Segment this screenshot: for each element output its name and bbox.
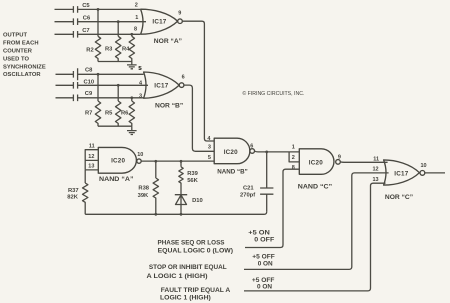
svg-text:+5 OFF: +5 OFF xyxy=(252,253,274,260)
note: FAULT TRIP EQUAL A LOGIC 1 (HIGH) xyxy=(160,287,230,301)
wire: bottom rail xyxy=(85,212,267,215)
svg-text:D10: D10 xyxy=(192,198,203,204)
svg-text:8: 8 xyxy=(292,165,295,171)
svg-text:SYNCHRONIZE: SYNCHRONIZE xyxy=(3,65,46,71)
resistor R3 xyxy=(105,36,121,61)
wire C7 tap to R4 xyxy=(131,34,133,36)
svg-text:13: 13 xyxy=(373,177,379,183)
capacitor C21 270pf xyxy=(240,152,273,212)
svg-text:9: 9 xyxy=(178,10,181,16)
wire: NAND A tied inputs 11,12,13 xyxy=(85,150,98,170)
node rail/R38 xyxy=(154,213,157,216)
svg-text:13: 13 xyxy=(88,164,94,170)
svg-text:R4: R4 xyxy=(122,46,130,52)
svg-text:© FIRING CIRCUITS, INC.: © FIRING CIRCUITS, INC. xyxy=(242,90,304,97)
svg-text:R38: R38 xyxy=(138,186,149,192)
svg-text:2: 2 xyxy=(292,155,295,161)
svg-text:R39: R39 xyxy=(187,171,198,177)
svg-text:C8: C8 xyxy=(85,68,93,74)
wire: NOR B output to NAND B pin 3 xyxy=(184,85,214,151)
resistor R39 56K xyxy=(179,161,199,194)
svg-text:R7: R7 xyxy=(85,110,92,116)
svg-text:IC17: IC17 xyxy=(154,82,168,89)
svg-text:R3: R3 xyxy=(105,46,113,52)
svg-text:IC20: IC20 xyxy=(309,159,323,166)
svg-text:R2: R2 xyxy=(86,47,93,53)
svg-text:C7: C7 xyxy=(82,28,89,34)
svg-text:R37: R37 xyxy=(68,188,79,194)
wire C6 tap to R3 xyxy=(117,22,119,37)
svg-text:OUTPUT: OUTPUT xyxy=(3,33,28,39)
capacitor C7 xyxy=(55,28,141,38)
node R39/D10 tap xyxy=(180,160,183,163)
svg-text:NAND “C”: NAND “C” xyxy=(298,183,332,190)
svg-text:8: 8 xyxy=(134,26,137,32)
svg-text:11: 11 xyxy=(89,143,95,149)
node C5/R2 xyxy=(97,8,100,11)
node C21 tap xyxy=(265,151,268,154)
node C6/R3 xyxy=(117,20,120,23)
svg-text:5: 5 xyxy=(139,66,142,72)
note: PHASE SEQ OR LOSS EQUAL LOGIC 0 (LOW) xyxy=(158,240,234,255)
svg-text:82K: 82K xyxy=(67,195,78,201)
svg-text:1: 1 xyxy=(292,144,295,150)
capacitor C5 xyxy=(55,3,141,13)
resistor R5 xyxy=(105,101,121,126)
svg-text:56K: 56K xyxy=(187,178,198,184)
svg-text:C9: C9 xyxy=(85,91,93,97)
NAND gate B: IC20 xyxy=(207,136,254,175)
wire: pin 12 from STOP rail xyxy=(244,173,389,270)
node C7/R4 xyxy=(130,33,133,36)
wire: NOR C output xyxy=(425,172,445,174)
wire C6 into gate xyxy=(145,21,148,23)
svg-text:EQUAL LOGIC 0 (LOW): EQUAL LOGIC 0 (LOW) xyxy=(158,248,233,255)
capacitor C9 xyxy=(56,91,144,101)
note: +5 ON / 0 OFF xyxy=(248,229,274,243)
NOR gate C: IC17 xyxy=(373,157,427,201)
wire: jumper pin1 to pin2 xyxy=(289,152,299,162)
svg-text:2: 2 xyxy=(135,3,138,9)
svg-text:6: 6 xyxy=(182,75,185,81)
svg-text:6: 6 xyxy=(250,143,253,149)
svg-text:IC17: IC17 xyxy=(394,171,408,178)
svg-text:OSCILLATOR: OSCILLATOR xyxy=(3,72,41,78)
svg-text:NAND “B”: NAND “B” xyxy=(217,169,248,176)
svg-text:12: 12 xyxy=(88,154,94,160)
node rail/D10 xyxy=(180,213,183,216)
NAND gate C: IC20 xyxy=(292,144,341,190)
wire: pin 13 from FAULT rail xyxy=(244,183,386,291)
svg-text:0 OFF: 0 OFF xyxy=(254,237,274,244)
svg-text:NAND “A”: NAND “A” xyxy=(99,176,134,183)
node C9/R6 xyxy=(130,96,133,99)
wire: NAND B output to NAND C pin 1 xyxy=(255,150,300,153)
svg-text:FROM EACH: FROM EACH xyxy=(3,41,39,47)
note: OUTPUT FROM EACH COUNTER USED TO SYNCHRONIZE OSCILLATOR xyxy=(3,33,46,78)
resistor R38 39K xyxy=(138,178,159,214)
capacitor C8 xyxy=(56,68,144,81)
svg-text:270pf: 270pf xyxy=(240,192,255,198)
note: +5 OFF / 0 ON xyxy=(252,253,274,267)
resistor R6 xyxy=(121,101,135,126)
NAND gate A: IC20 xyxy=(88,143,143,183)
svg-text:C5: C5 xyxy=(82,3,90,9)
wire: R2-R3-R4 common rail xyxy=(98,61,132,63)
svg-text:IC17: IC17 xyxy=(152,18,166,25)
svg-text:0 ON: 0 ON xyxy=(258,260,273,267)
svg-text:PHASE SEQ OR LOSS: PHASE SEQ OR LOSS xyxy=(158,240,225,247)
svg-text:1: 1 xyxy=(135,15,138,21)
svg-text:NOR “A”: NOR “A” xyxy=(154,38,182,45)
node C10/R5 xyxy=(117,84,120,87)
resistor R7 xyxy=(85,101,101,126)
svg-text:A LOGIC 1 (HIGH): A LOGIC 1 (HIGH) xyxy=(147,273,208,280)
wire C5 tap to R2 xyxy=(97,9,99,36)
svg-text:5: 5 xyxy=(208,155,211,161)
resistor R2 xyxy=(86,36,100,61)
node C8/R7 xyxy=(97,73,100,76)
svg-text:3: 3 xyxy=(208,144,211,150)
svg-text:R5: R5 xyxy=(105,110,113,116)
svg-text:NOR “C”: NOR “C” xyxy=(385,194,413,201)
svg-text:COUNTER: COUNTER xyxy=(3,49,33,55)
wire: R7-R5-R6 common rail xyxy=(98,125,132,127)
resistor R37 82K xyxy=(67,183,88,214)
svg-text:USED TO: USED TO xyxy=(3,57,29,63)
svg-text:C6: C6 xyxy=(83,16,91,22)
svg-text:C10: C10 xyxy=(84,80,95,86)
svg-text:NOR “B”: NOR “B” xyxy=(155,102,183,109)
resistor R4 xyxy=(122,36,135,61)
svg-text:IC20: IC20 xyxy=(224,149,238,156)
ground (NOR A input bank) xyxy=(127,62,137,69)
wire: NAND A output to NAND B pin 5 xyxy=(141,160,214,162)
svg-text:C21: C21 xyxy=(243,186,254,192)
svg-text:9: 9 xyxy=(338,154,341,160)
svg-text:LOGIC 1 (HIGH): LOGIC 1 (HIGH) xyxy=(160,295,211,302)
svg-text:R6: R6 xyxy=(121,110,129,116)
diode D10 xyxy=(175,195,203,215)
NOR gate A: IC17 xyxy=(134,3,182,46)
wire C9 tap to R6 xyxy=(131,98,133,101)
svg-text:STOP OR INHIBIT EQUAL: STOP OR INHIBIT EQUAL xyxy=(149,264,227,271)
svg-text:12: 12 xyxy=(373,167,379,173)
svg-text:10: 10 xyxy=(137,152,143,158)
capacitor C6 xyxy=(55,16,146,26)
svg-text:FAULT TRIP EQUAL A: FAULT TRIP EQUAL A xyxy=(161,287,231,294)
svg-text:0 ON: 0 ON xyxy=(257,284,272,291)
svg-text:3: 3 xyxy=(139,93,142,99)
svg-text:11: 11 xyxy=(373,157,379,163)
note: +5 OFF / 0 ON xyxy=(252,277,275,291)
wire: pin 8 from PHASE SEQ rail xyxy=(245,169,299,247)
svg-text:10: 10 xyxy=(421,163,427,169)
wire: NAND C output to NOR C pin 11 xyxy=(340,161,387,163)
wire C10 tap to R5 xyxy=(117,85,119,101)
note: STOP OR INHIBIT EQUAL A LOGIC 1 (HIGH) xyxy=(147,264,227,280)
node R38 tap xyxy=(154,160,157,163)
svg-text:+5 ON: +5 ON xyxy=(248,229,270,236)
wire: input node down to R37 xyxy=(84,170,86,183)
wire down to R38 xyxy=(155,161,157,178)
svg-text:39K: 39K xyxy=(138,193,149,199)
svg-text:IC20: IC20 xyxy=(111,158,125,165)
wire: NOR A output to NAND B pin 4 xyxy=(182,21,214,141)
capacitor C10 xyxy=(56,80,149,89)
NOR gate B: IC17 xyxy=(139,66,185,109)
wire C8 tap to R7 xyxy=(97,74,99,101)
ground (NOR B input bank) xyxy=(127,126,137,134)
